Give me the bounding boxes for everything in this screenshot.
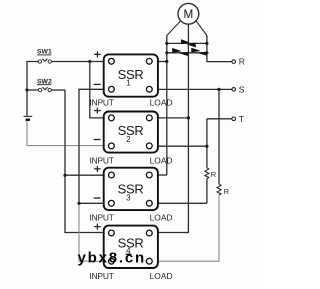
wire: minus bus branch SSR3 minus xyxy=(79,202,108,204)
svg-text:M: M xyxy=(184,8,194,21)
motor lead diagonal right xyxy=(196,21,207,36)
motor M circle xyxy=(178,3,199,24)
svg-text:INPUT: INPUT xyxy=(90,213,114,223)
node: SW1 bus tap xyxy=(88,60,91,63)
wire: SSR4 load top to center vertical xyxy=(152,231,188,233)
node: row2 left xyxy=(165,51,168,54)
svg-text:R: R xyxy=(239,57,245,67)
wire: S vertical with R2 xyxy=(218,89,220,184)
label plus SSR3 xyxy=(94,166,101,172)
wire: SSR3 load bottom to R1 bottom corner xyxy=(152,202,207,204)
resistor R1 zigzag xyxy=(205,168,209,179)
wire: T line vertical with R1 xyxy=(206,119,208,168)
node: row1 left xyxy=(165,42,168,45)
svg-text:LOAD: LOAD xyxy=(150,156,173,166)
node: row1 right xyxy=(205,42,208,45)
label plus SSR2 xyxy=(94,108,101,114)
svg-text:LOAD: LOAD xyxy=(150,271,173,281)
svg-text:R: R xyxy=(211,170,217,179)
SSR3 box xyxy=(104,168,158,210)
crossbar row 2 xyxy=(167,52,207,54)
svg-text:INPUT: INPUT xyxy=(90,271,114,281)
wire: T horizontal xyxy=(207,118,232,120)
node: S junction xyxy=(217,88,220,91)
label minus SSR1 xyxy=(94,83,101,85)
svg-text:S: S xyxy=(239,85,245,95)
watermark ybx8.cn xyxy=(78,250,146,267)
battery B1 plate long xyxy=(24,115,33,117)
wire: SW2 bus down to SSR3+ / SSR4+ xyxy=(65,90,108,233)
wire: SW2 branch to SSR3 plus xyxy=(65,174,108,176)
wire: minus bus to SSR4 minus xyxy=(79,203,108,261)
switch SW1 xyxy=(38,59,108,64)
wire: SSR3 load top to left motor lead vertical xyxy=(152,174,166,176)
wire: left battery rail upper xyxy=(27,62,38,117)
node: SW2 rail tap xyxy=(25,88,28,91)
terminal S xyxy=(232,85,245,95)
label minus SSR3 xyxy=(94,197,101,199)
wire: minus bus from SSR1 minus down xyxy=(79,89,108,203)
SSR4 box xyxy=(104,226,158,268)
svg-text:INPUT: INPUT xyxy=(90,156,114,166)
wire: S line from SSR1 load bottom to terminal S xyxy=(152,88,232,90)
resistor R2 zigzag xyxy=(217,184,221,195)
label minus SSR2 xyxy=(94,139,101,141)
svg-text:INPUT: INPUT xyxy=(90,98,114,108)
node: SSR2 load bottom junction xyxy=(205,145,208,148)
wire: SW1 bus down to SSR2 plus xyxy=(90,62,109,118)
terminal R xyxy=(232,57,245,67)
SSR2 box xyxy=(104,112,158,153)
wire: SSR4 load bottom to R2 bottom corner xyxy=(152,260,219,261)
node: row2 right xyxy=(205,51,208,54)
motor lead diagonal left xyxy=(167,21,181,36)
svg-text:3: 3 xyxy=(126,193,131,202)
wire: left motor lead vertical xyxy=(166,36,168,176)
battery B1 plate short thick xyxy=(26,118,31,120)
triac symbol row1 center xyxy=(181,40,195,47)
svg-text:ybx8.cn: ybx8.cn xyxy=(78,250,146,267)
svg-text:R: R xyxy=(224,187,230,196)
svg-text:LOAD: LOAD xyxy=(150,98,173,108)
triac symbol row2 left xyxy=(173,49,188,56)
wire: SSR1 load top to left motor lead xyxy=(152,61,167,63)
wire: SSR2 load bottom to R1 line xyxy=(152,145,207,147)
terminal T xyxy=(232,114,245,124)
crossbar row 1 xyxy=(167,42,207,44)
node: SSR1 load top junction xyxy=(165,60,168,63)
svg-text:T: T xyxy=(239,114,245,124)
triac symbol row2 right xyxy=(192,48,207,55)
SSR1 box xyxy=(104,54,158,96)
node: minus bus at SSR3 xyxy=(77,202,80,205)
label plus SSR1 xyxy=(94,51,101,57)
switch SW2 xyxy=(27,87,65,92)
svg-text:1: 1 xyxy=(126,78,131,87)
wire: center motor lead vertical xyxy=(187,24,189,232)
wire: left battery rail lower + bottom horizontal to SSR2 minus xyxy=(27,120,108,145)
wire: SSR2 load top to center motor lead xyxy=(152,117,188,119)
svg-text:2: 2 xyxy=(126,135,131,144)
node: SSR2 load top junction xyxy=(187,116,190,119)
svg-text:LOAD: LOAD xyxy=(150,213,173,223)
node: SW2 to SSR3 plus xyxy=(63,174,66,177)
label plus SSR4 xyxy=(94,224,101,230)
wire: right motor lead vertical upper to R xyxy=(207,36,232,62)
